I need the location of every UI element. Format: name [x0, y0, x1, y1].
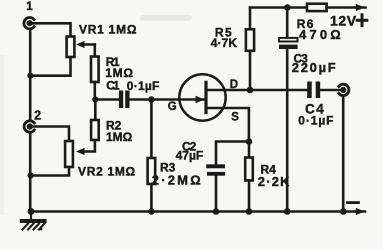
capacitor C2 branch [216, 142, 249, 165]
capacitor C3 [286, 8, 289, 38]
wire node A to R2 [94, 100, 97, 121]
resistor R5 [249, 8, 252, 30]
bus junction C3 [284, 208, 291, 215]
resistor R2 [91, 120, 99, 140]
wire VR1 bottom to ground rail [30, 57, 70, 76]
svg-text:2·2MΩ: 2·2MΩ [152, 172, 203, 187]
svg-text:1MΩ: 1MΩ [106, 130, 133, 144]
resistor R4 [248, 142, 251, 158]
node B junction [148, 96, 155, 103]
potentiometer VR2 [65, 141, 73, 167]
wire C1 to node B [130, 98, 152, 101]
svg-text:0·1µF: 0·1µF [127, 79, 160, 93]
junction ground rail bottom [28, 208, 35, 215]
scan noise streak [140, 15, 192, 21]
FET Q1 circle [179, 74, 225, 120]
svg-text:2·2K: 2·2K [258, 174, 291, 189]
node A junction [92, 96, 98, 102]
wire jack2 to VR2 top [31, 127, 69, 142]
wire wiper to R1 [94, 45, 97, 57]
ground rail left [29, 30, 32, 121]
drain wire [206, 89, 307, 92]
svg-text:D: D [230, 79, 238, 91]
source wire [206, 108, 249, 142]
bus arrow positive [356, 4, 365, 11]
chassis ground symbol [22, 212, 45, 230]
input jack 1 [24, 17, 34, 28]
bus arrow negative [356, 208, 365, 215]
wire jack1 to VR1 top [31, 23, 71, 36]
junction VR2 ground [28, 172, 34, 178]
svg-text:0·1µF: 0·1µF [298, 114, 334, 128]
output jack [339, 84, 349, 95]
gate wire node B to FET [151, 98, 203, 101]
top 12V bus [250, 6, 307, 9]
svg-text:47µF: 47µF [176, 149, 204, 163]
potentiometer VR1 [67, 37, 75, 58]
capacitor C4 [307, 82, 320, 99]
minus sign [348, 201, 359, 204]
top bus junction C3 [284, 4, 291, 11]
bus junction R4 [246, 208, 253, 215]
svg-text:12V: 12V [330, 13, 357, 29]
bus junction jack sleeve [340, 208, 347, 215]
svg-text:2: 2 [34, 108, 41, 122]
VR1 wiper arrow wire [80, 43, 95, 46]
wire VR2 bottom to ground rail [30, 167, 69, 176]
bottom 0V bus [31, 210, 365, 213]
scan noise left edge [0, 55, 4, 215]
wire jack sleeve to bus [342, 96, 345, 212]
input jack 2 [24, 121, 34, 132]
wire C4 to output jack [320, 89, 341, 92]
svg-text:220µF: 220µF [292, 60, 338, 75]
capacitor C1 [119, 91, 130, 109]
resistor R1 [91, 57, 99, 83]
svg-text:VR2 1MΩ: VR2 1MΩ [78, 164, 136, 178]
svg-text:1: 1 [26, 1, 33, 13]
wire R1 bottom to node A [94, 82, 97, 100]
bus junction R3 [148, 208, 155, 215]
junction VR1 ground [27, 73, 33, 79]
FET channel bar [204, 82, 207, 112]
svg-text:G: G [168, 101, 177, 113]
wire R2 to VR2 wiper [80, 140, 95, 152]
wire node A to C1 [95, 98, 119, 101]
drain junction [247, 87, 254, 94]
svg-text:4·7K: 4·7K [211, 36, 238, 50]
source junction [246, 138, 253, 145]
resistor R3 [150, 100, 153, 159]
resistor R6 [307, 4, 327, 11]
svg-text:470Ω: 470Ω [299, 27, 344, 42]
svg-text:S: S [231, 112, 239, 124]
plus symbol [357, 15, 367, 26]
bus junction C2 [213, 208, 220, 215]
svg-text:VR1 1MΩ: VR1 1MΩ [79, 23, 137, 37]
